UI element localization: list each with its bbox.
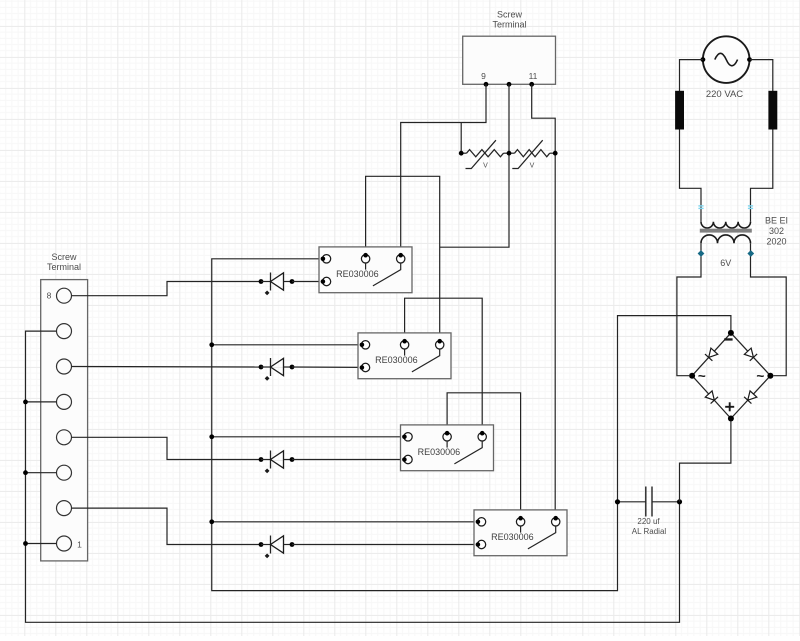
wire rail to relay U2 top-left [212,344,362,346]
diode D4 [259,536,295,559]
wire relay U3 coil to relay U4 coil [447,393,520,520]
svg-text:Terminal: Terminal [492,20,526,30]
node minus [728,330,734,336]
wire pin3 stub [26,472,57,474]
junction pin3 [23,470,28,475]
wire pin9 to relay U1 top-right [401,84,486,256]
wire D4 to relay U4 [292,544,477,546]
junction capacitor left [615,499,620,504]
svg-text:9: 9 [481,71,486,81]
wire secondary left to bridge ~ [677,243,701,376]
fuse F2 [768,91,777,130]
svg-text:2020: 2020 [766,236,786,246]
relay U4 RE030006 [474,510,567,556]
wire pin11 to varistor RV2 and relay U4 top-right [532,84,556,519]
svg-text:Terminal: Terminal [47,262,81,272]
wire + rail: pins 7/5/3/1 to bridge + via capacitor right [26,331,680,622]
svg-text:6V: 6V [720,258,731,268]
relay U3 RE030006 [401,425,494,471]
svg-text:V: V [530,162,535,169]
wire D3 to relay U3 [292,459,404,461]
bridge rectifier BR1 [689,330,773,422]
anchor diamond left [698,250,705,257]
capacitor C1 220uf AL Radial [618,487,680,537]
svg-text:RE030006: RE030006 [418,447,461,457]
relay U2 RE030006 [358,333,451,379]
bridge diode top-left [705,348,718,361]
wire terminal middle to relay U1 coil and U2 top-right [440,84,509,247]
varistor RV1 [459,140,509,169]
diode D3 [259,451,295,474]
junction rail-U4 [209,519,214,524]
fuse F1 [675,91,684,130]
anchor diamond right [747,250,754,257]
svg-text:Screw: Screw [497,10,523,20]
wire coil-common rail to bridge minus [212,259,731,591]
svg-text:220 uf: 220 uf [637,517,660,526]
wire secondary right to bridge ~ [751,243,787,376]
wire varistor RV1 left branch [460,123,462,154]
wire D2 to relay U2 [292,366,361,368]
wire capacitor right to bridge plus [680,422,731,502]
connection marks primary [698,205,753,209]
svg-text:302: 302 [769,226,784,236]
diode D2 [259,358,295,381]
diode D1 [259,273,295,296]
svg-text:Screw: Screw [51,252,77,262]
junction pin1 [23,541,28,546]
svg-text:1: 1 [77,540,82,550]
AC source V1 220 VAC [701,36,752,100]
wire pin2 to diode D4 [72,508,262,544]
wire pin4 to diode D3 [72,437,262,459]
bridge diode bottom-right [744,391,757,404]
wire AC left to transformer primary [680,60,703,222]
svg-text:RE030006: RE030006 [336,269,379,279]
svg-text:~: ~ [756,369,764,384]
junction rail-U3 [209,434,214,439]
svg-text:RE030006: RE030006 [375,355,418,365]
node ac-right [767,373,773,379]
wire rail to relay U3 top-left [212,436,404,438]
junction rail-U2 [209,342,214,347]
svg-text:8: 8 [47,291,52,301]
varistor RV2 [507,140,558,169]
screw terminal (left, pins 8..1) [41,252,88,561]
bridge diode top-right [744,348,757,361]
svg-text:AL Radial: AL Radial [632,527,667,536]
svg-text:BE EI: BE EI [765,215,788,225]
node ac-left [689,373,695,379]
svg-text:RE030006: RE030006 [491,532,534,542]
wire D1 to relay U1 [292,281,322,283]
svg-text:V: V [483,162,488,169]
wire pin1 stub [26,543,57,545]
relay U1 RE030006 [319,247,412,293]
junction capacitor right [677,499,682,504]
wire relay U2 coil to relay U3 top-right [405,298,483,434]
junction pin5 [23,400,28,405]
wire pin8 to diode D1 [72,282,262,296]
node plus [728,416,734,422]
svg-text:220 VAC: 220 VAC [706,89,743,100]
wire AC right to transformer primary [750,60,773,222]
svg-text:11: 11 [529,71,538,81]
svg-text:~: ~ [698,369,706,384]
transformer T1 BE EI 302 2020 [700,215,788,268]
wire rail to relay U4 top-left [212,521,478,523]
wire pin6 to diode D2 [72,366,262,369]
bridge diode bottom-left [705,391,718,404]
screw terminal (top, pins 9/11) [463,10,556,87]
wire pin5 stub [26,401,57,403]
